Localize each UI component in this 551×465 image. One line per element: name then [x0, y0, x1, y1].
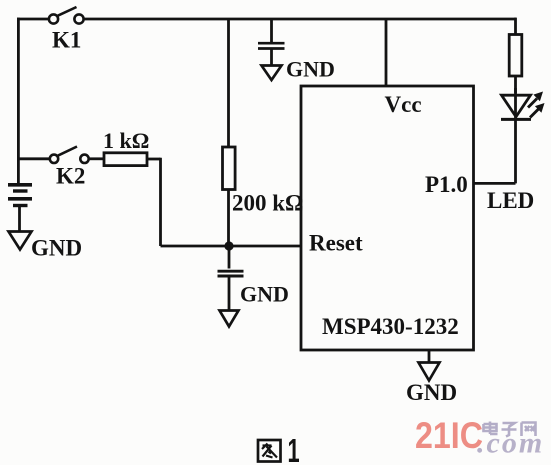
svg-text:21IC: 21IC — [415, 416, 483, 457]
resistor R2 200k — [223, 147, 236, 190]
watermark dianziwang glyphs — [484, 422, 536, 437]
label K1 — [52, 28, 81, 53]
svg-text:MSP430-1232: MSP430-1232 — [322, 314, 459, 339]
watermark 21IC — [415, 416, 483, 457]
wire Vcc branch — [385, 19, 388, 86]
caption glyph tu (figure) — [258, 440, 281, 462]
ground C1 — [262, 66, 282, 81]
label 200 kOhm — [232, 191, 303, 216]
pin label Vcc — [385, 92, 422, 117]
label MSP430-1232 — [322, 314, 459, 339]
wire LED to P1.0 — [474, 119, 516, 183]
node junction dot — [224, 241, 233, 250]
caption number 1 — [288, 432, 300, 465]
switch K2 — [50, 147, 104, 164]
svg-text:1 kΩ: 1 kΩ — [103, 128, 149, 153]
capacitor C2 — [218, 246, 244, 310]
switch K1 — [49, 7, 84, 24]
capacitor C1 — [258, 19, 285, 65]
resistor R3 LED series — [509, 18, 522, 93]
wire IC ground pin — [428, 350, 431, 362]
pin label P1.0 — [425, 172, 468, 197]
svg-text:K2: K2 — [56, 164, 85, 189]
label GND C2 — [240, 282, 289, 307]
wire R1 to Reset node — [147, 158, 301, 246]
ground IC — [419, 363, 440, 381]
svg-text:Reset: Reset — [309, 231, 363, 256]
label K2 — [56, 164, 85, 189]
svg-text:GND: GND — [286, 57, 335, 82]
watermark .com — [477, 427, 544, 460]
LED arrows — [528, 92, 545, 118]
label GND IC — [406, 380, 457, 405]
svg-text:Vcc: Vcc — [385, 92, 422, 117]
ground battery — [9, 232, 32, 250]
svg-text:200 kΩ: 200 kΩ — [232, 191, 303, 216]
svg-text:GND: GND — [406, 380, 457, 405]
svg-text:.com: .com — [477, 427, 544, 460]
wire 200k branch from top rail — [227, 19, 230, 147]
LED D1 — [501, 88, 531, 119]
wire K2 branch — [18, 157, 50, 160]
pin label Reset — [309, 231, 363, 256]
svg-text:P1.0: P1.0 — [425, 172, 468, 197]
label LED — [487, 188, 534, 213]
wire top rail — [17, 18, 516, 21]
svg-text:LED: LED — [487, 188, 534, 213]
wire left rail — [17, 18, 20, 185]
label 1 kOhm — [103, 128, 149, 153]
IC U1 MSP430-1232 — [301, 86, 474, 350]
svg-text:GND: GND — [240, 282, 289, 307]
ground C2 — [220, 311, 239, 327]
resistor R1 1k — [104, 153, 147, 166]
svg-text:K1: K1 — [52, 28, 81, 53]
battery B1 — [8, 185, 32, 231]
label GND battery — [31, 236, 82, 261]
wire R2 to node — [227, 190, 230, 247]
label GND C1 — [286, 57, 335, 82]
svg-text:GND: GND — [31, 236, 82, 261]
svg-text:1: 1 — [288, 432, 300, 465]
